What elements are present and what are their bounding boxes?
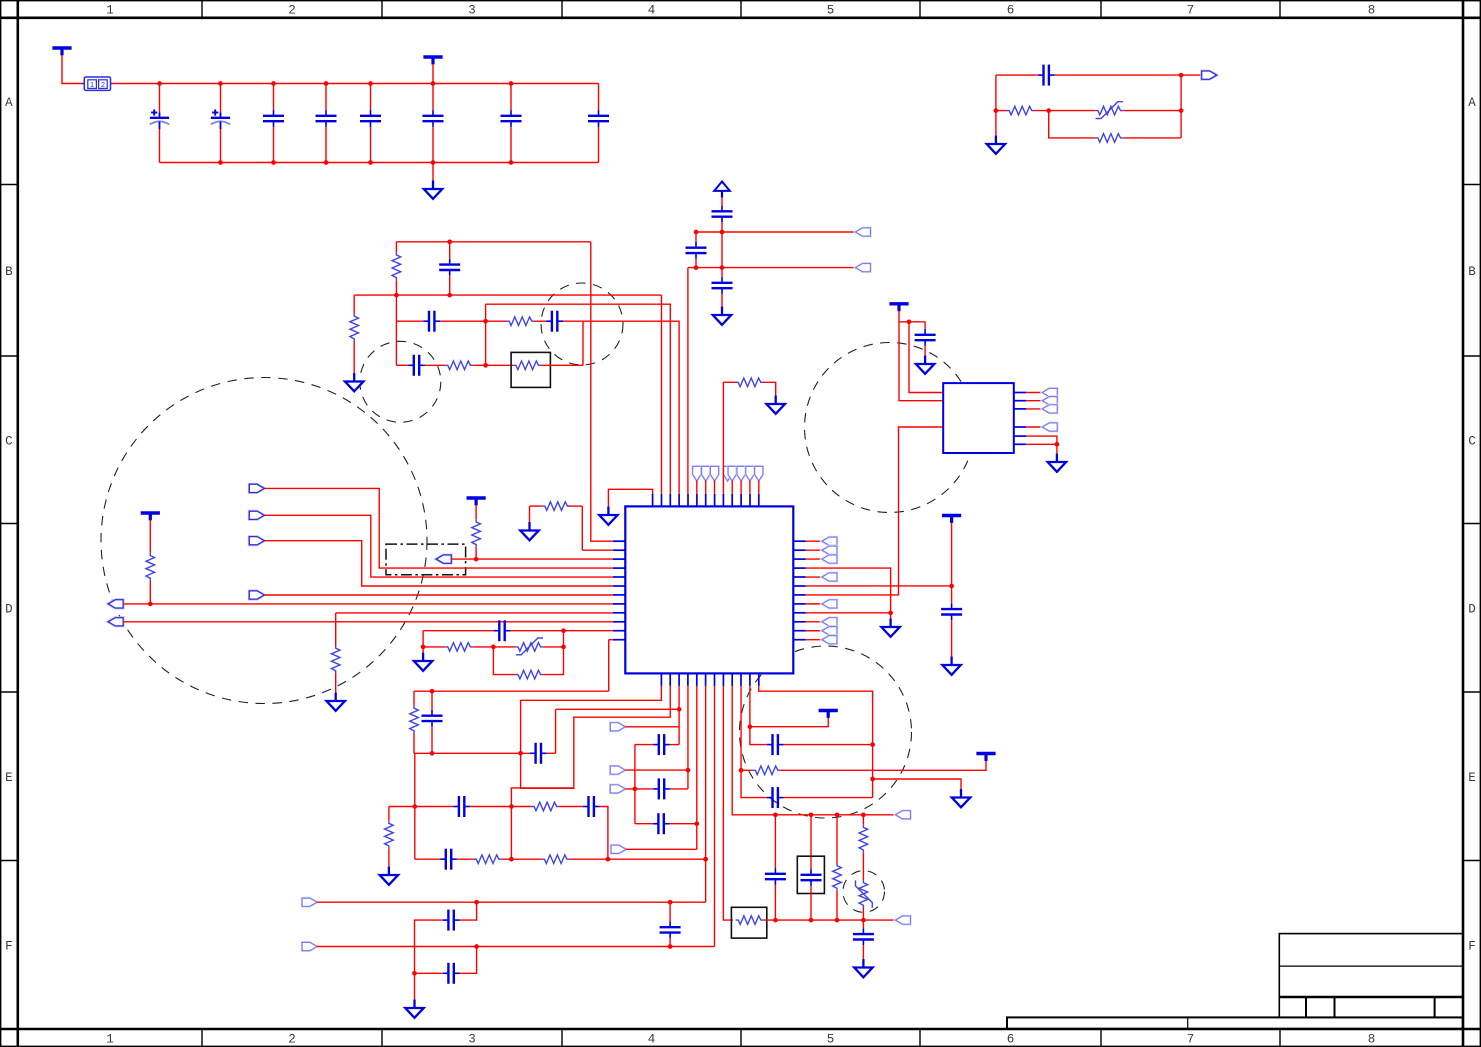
wire R5 to C12 bbox=[535, 320, 547, 322]
wire BP1 to B3 column bbox=[625, 726, 679, 728]
variable resistor RV3 bbox=[856, 880, 873, 908]
ground G10 bbox=[942, 657, 960, 675]
wire R14 loop bbox=[543, 647, 563, 675]
junction bbox=[633, 787, 638, 792]
component box around R20 bbox=[731, 907, 766, 938]
junction bbox=[509, 857, 514, 862]
capacitor C9 bbox=[1038, 65, 1055, 86]
junction bbox=[835, 812, 840, 817]
ground GB bbox=[424, 181, 442, 199]
port PB bbox=[249, 511, 264, 519]
junction bbox=[809, 812, 814, 817]
capacitor C11 bbox=[423, 311, 440, 332]
capacitor C21 bbox=[422, 710, 443, 727]
junction bbox=[739, 768, 744, 773]
wire C28 to R16 bbox=[470, 806, 531, 808]
wire TP1 to U1 bbox=[696, 481, 698, 494]
connector J1 pin stubs bbox=[1014, 393, 1027, 445]
wire VCC4 to R11 bbox=[149, 520, 151, 553]
junction bbox=[748, 724, 753, 729]
wire J1 pin2 to port JP2 bbox=[1026, 400, 1042, 402]
resistor R23 bbox=[859, 825, 868, 853]
junction bbox=[703, 857, 708, 862]
wire C22 right lead bbox=[670, 744, 679, 746]
junction bbox=[870, 777, 875, 782]
junction bbox=[412, 804, 417, 809]
power symbol VDD up-arrow bbox=[714, 182, 730, 198]
wire to ground G12 bbox=[1056, 444, 1058, 454]
svg-text:B: B bbox=[1468, 265, 1476, 279]
wire vertical branch x486 bbox=[485, 304, 487, 365]
junction bbox=[509, 160, 514, 165]
dashed highlight circle 4 (connector) bbox=[805, 343, 975, 513]
capacitor C35 bbox=[853, 928, 874, 945]
svg-text:8: 8 bbox=[1368, 1033, 1376, 1047]
svg-text:E: E bbox=[1468, 771, 1476, 785]
wire C6 bottom lead bbox=[432, 127, 434, 163]
wire BP3 to C23 bbox=[625, 788, 653, 790]
port BP5 bbox=[302, 898, 317, 906]
wire C29 elbow down bbox=[600, 807, 608, 860]
port TP7 bbox=[746, 466, 754, 481]
junction bbox=[720, 265, 725, 270]
wire to C25 bbox=[460, 902, 477, 920]
wire C2 top lead bbox=[220, 84, 222, 113]
resistor R22 bbox=[833, 863, 842, 891]
power symbol VCC8 bbox=[976, 754, 995, 761]
junction bbox=[773, 918, 778, 923]
wire R21 to VCC8 bbox=[781, 761, 986, 771]
ground G6 bbox=[520, 522, 538, 540]
capacitor C18 bbox=[941, 603, 962, 620]
wire R16 to C29 bbox=[559, 806, 582, 808]
svg-text:2: 2 bbox=[288, 4, 296, 18]
wire TP7 to U1 bbox=[749, 481, 751, 494]
wire C23 to B4 bbox=[670, 788, 688, 790]
ground G1 bbox=[987, 136, 1005, 154]
capacitor C12 bbox=[546, 311, 563, 332]
wire net1 to U1 pin L1 bbox=[591, 242, 613, 541]
port RP5 bbox=[822, 600, 837, 608]
wire row647 left bbox=[423, 646, 445, 648]
wire elbow x423 bbox=[422, 631, 424, 647]
IC U1 pin stubs bbox=[613, 494, 806, 686]
wire P3 to U1 L3 bbox=[451, 558, 613, 560]
wire U1 R2 to port RP2 bbox=[806, 549, 823, 551]
dashed highlight circle 2 bbox=[360, 341, 441, 422]
wire vertical branch x396 bbox=[395, 295, 397, 365]
dashed highlight circle 1 (left region) bbox=[101, 378, 427, 704]
wire J1 pin1 to port JP1 bbox=[1026, 392, 1042, 394]
wire C13 to R6 bbox=[425, 364, 445, 366]
ground G9 bbox=[881, 619, 899, 637]
wire C16 to ground G3 bbox=[721, 294, 723, 308]
junction bbox=[271, 81, 276, 86]
capacitor C19 bbox=[915, 329, 936, 346]
svg-text:D: D bbox=[5, 602, 13, 616]
wire U1 B8 down to R20 bbox=[723, 686, 733, 920]
wire row709 bbox=[556, 708, 680, 710]
wire C20 right lead bbox=[547, 752, 556, 754]
component box around R7 bbox=[511, 352, 550, 387]
junction bbox=[694, 230, 699, 235]
power symbol VCC7 bbox=[819, 711, 838, 718]
port RP4 bbox=[822, 573, 837, 581]
wire L9 elbow down bbox=[335, 613, 337, 646]
dashed highlight circle 3 bbox=[541, 283, 623, 365]
wire branch to C19 bbox=[899, 321, 925, 323]
wire net2 to U1 pin T2 bbox=[661, 295, 663, 494]
dashed highlight circle 6 (trimmer) bbox=[843, 871, 885, 913]
junction bbox=[994, 108, 999, 113]
capacitor C30 bbox=[440, 849, 457, 870]
wire to C26 bbox=[460, 947, 477, 974]
svg-text:3: 3 bbox=[468, 1033, 476, 1047]
wire R9 left lead bbox=[530, 505, 543, 507]
svg-text:8: 8 bbox=[1368, 4, 1376, 18]
capacitor C4 bbox=[316, 110, 337, 127]
svg-text:3: 3 bbox=[468, 4, 476, 18]
wire C25 to x414 bbox=[415, 920, 443, 973]
wire J1 pin4 to port JP4 bbox=[1026, 426, 1042, 428]
capacitor C6 bbox=[423, 110, 444, 127]
wire R12 to ground G7 bbox=[335, 674, 337, 694]
port RP1 bbox=[822, 537, 837, 545]
wire TP5 to U1 bbox=[731, 481, 733, 494]
svg-text:F: F bbox=[5, 939, 13, 953]
wire C35 to ground G16 bbox=[862, 945, 864, 960]
wire VCC5 down bbox=[951, 523, 953, 604]
wire R7 to branch bbox=[541, 364, 583, 366]
wire U1 R11 to port RP7 bbox=[806, 630, 823, 632]
wire C32 to x872 bbox=[784, 744, 873, 746]
wire C31 to x872 bbox=[784, 797, 873, 799]
junction bbox=[1179, 108, 1184, 113]
junction bbox=[861, 918, 866, 923]
power symbol VCC5 bbox=[942, 516, 961, 523]
resistor R19 bbox=[542, 855, 570, 864]
wire C2 bottom lead bbox=[220, 129, 222, 163]
junction bbox=[561, 645, 566, 650]
wire to C9 bbox=[996, 74, 1038, 76]
wire C24 right lead bbox=[670, 823, 697, 825]
wire C33 top lead bbox=[774, 815, 776, 868]
ground G2 bbox=[345, 373, 363, 391]
wire C19 top lead bbox=[924, 322, 926, 329]
port P3 bbox=[436, 555, 451, 563]
wire C21 bottom lead bbox=[431, 727, 433, 754]
junction bbox=[949, 584, 954, 589]
junction bbox=[430, 751, 435, 756]
port PC bbox=[249, 537, 264, 545]
wire row806 left bbox=[389, 806, 453, 808]
wire U1 R7 to connector J1 pin3 bbox=[806, 427, 943, 595]
junction bbox=[430, 689, 435, 694]
wire U1 R12 to port RP8 bbox=[806, 639, 823, 641]
junction bbox=[518, 751, 523, 756]
wire C4 top lead bbox=[325, 84, 327, 111]
variable resistor RV1 bbox=[1095, 102, 1123, 119]
port OUT1 bbox=[1202, 71, 1217, 79]
junction bbox=[431, 81, 436, 86]
resistor R11 bbox=[146, 553, 155, 581]
port BP3 bbox=[610, 785, 625, 793]
wire U1 R4 elbow bbox=[806, 568, 891, 613]
wire C5 bottom lead bbox=[370, 127, 372, 163]
junction bbox=[394, 293, 399, 298]
resistor R2 bbox=[1095, 134, 1123, 143]
wire C17 to U1 L11 bbox=[510, 630, 613, 632]
wire RV1 to right branch bbox=[1123, 110, 1181, 112]
wire J1 pin5 bbox=[1026, 436, 1057, 444]
wire right branch vertical bbox=[1180, 75, 1182, 138]
wire to R14 bbox=[493, 647, 515, 675]
wire R8 to ground G5 bbox=[764, 382, 776, 396]
junction bbox=[694, 821, 699, 826]
wire U1 R9 bbox=[806, 612, 891, 614]
wire TP2 to U1 bbox=[705, 481, 707, 494]
capacitor C14 bbox=[712, 206, 733, 223]
wire VCC2 stem bbox=[432, 64, 434, 84]
port PE bbox=[108, 600, 123, 608]
wire C34 bottom lead bbox=[810, 886, 812, 920]
port BP6 bbox=[302, 942, 317, 950]
wire C33 bottom lead bbox=[774, 885, 776, 920]
junction bbox=[324, 81, 329, 86]
junction bbox=[421, 645, 426, 650]
wire row920 bbox=[764, 919, 896, 921]
wire PA to U1 L4 bbox=[264, 488, 613, 568]
wire VDD to C14 bbox=[721, 198, 723, 206]
wire RV2 right bbox=[543, 646, 563, 648]
wire to R2 bbox=[1049, 111, 1096, 138]
port P2 bbox=[856, 264, 871, 272]
wire B10 to R21 bbox=[741, 769, 753, 771]
wire net w2 bbox=[688, 267, 856, 269]
wire U1 T9 to R8 bbox=[723, 382, 737, 494]
wire U1 R6 long bbox=[806, 585, 952, 587]
svg-text:E: E bbox=[5, 771, 13, 785]
capacitor C24 bbox=[653, 813, 670, 834]
resistor R7 bbox=[513, 361, 541, 370]
junction bbox=[703, 857, 708, 862]
wire net w2 to U1 pin T5 bbox=[687, 268, 689, 494]
wire row753 bbox=[414, 752, 530, 754]
junction bbox=[483, 319, 488, 324]
wire C16 top lead bbox=[721, 268, 723, 278]
wire C21 top lead bbox=[431, 691, 433, 710]
junction bbox=[1046, 108, 1051, 113]
IC U1 bbox=[625, 506, 793, 673]
wire R3 bottom lead bbox=[395, 280, 397, 295]
dashed highlight circle 5 (below IC) bbox=[740, 646, 912, 818]
wire row5 left bbox=[396, 364, 408, 366]
wire R3 top lead bbox=[395, 242, 397, 253]
resistor R5 bbox=[507, 317, 535, 326]
dash-dot group box bbox=[386, 544, 466, 575]
connector J1 bbox=[943, 383, 1014, 453]
wire branch x563 bbox=[563, 631, 565, 647]
wire VCC3 to R10 bbox=[475, 505, 477, 519]
wire R19 to B6 column bbox=[570, 858, 706, 860]
junction bbox=[474, 944, 479, 949]
junction bbox=[368, 81, 373, 86]
wire U1 R5 to port RP4 bbox=[806, 576, 823, 578]
junction bbox=[606, 857, 611, 862]
svg-text:5: 5 bbox=[827, 4, 835, 18]
resistor R15 bbox=[410, 706, 419, 734]
junction bbox=[483, 363, 488, 368]
port P1 bbox=[856, 228, 871, 236]
variable resistor RV2 bbox=[515, 638, 543, 655]
ground G3 bbox=[713, 307, 731, 325]
wire to ground GB bbox=[432, 163, 434, 182]
port BP4 bbox=[611, 845, 626, 853]
wire branch up x511 bbox=[511, 788, 574, 807]
capacitor C25 bbox=[443, 910, 460, 931]
port BP8 bbox=[896, 811, 911, 819]
port RP2 bbox=[822, 546, 837, 554]
wire U1 B5 down bbox=[696, 686, 698, 849]
wire C7 top lead bbox=[510, 84, 512, 111]
wire C30 to R18 bbox=[457, 858, 474, 860]
capacitor C31 bbox=[767, 787, 784, 808]
svg-text:B: B bbox=[5, 265, 13, 279]
wire C3 bottom lead bbox=[273, 127, 275, 163]
junction bbox=[773, 812, 778, 817]
junction bbox=[1055, 442, 1060, 447]
port JP1 bbox=[1042, 388, 1057, 396]
resistor R4 bbox=[350, 314, 359, 342]
wire C27 top lead bbox=[669, 902, 671, 921]
ground G11 bbox=[916, 356, 934, 374]
wire C1 bottom lead bbox=[159, 129, 161, 163]
junction bbox=[668, 900, 673, 905]
ground G12 bbox=[1048, 454, 1066, 472]
ground G14 bbox=[380, 867, 398, 885]
wire R6 to R7 bbox=[473, 364, 513, 366]
capacitor C13 bbox=[408, 355, 425, 376]
port RP7 bbox=[822, 627, 837, 635]
wire C27 bottom lead bbox=[669, 938, 671, 946]
junction bbox=[447, 293, 452, 298]
wire PD to U1 L7 bbox=[264, 594, 613, 596]
port RP8 bbox=[822, 636, 837, 644]
junction bbox=[491, 645, 496, 650]
junction bbox=[218, 160, 223, 165]
capacitor C17 bbox=[494, 620, 511, 641]
wire elbow x555 bbox=[555, 709, 557, 753]
wire U1 R10 to port RP6 bbox=[806, 621, 823, 623]
wire x872 to ground G15 bbox=[873, 779, 961, 790]
wire C10 top lead bbox=[449, 242, 451, 259]
wire C6 top lead bbox=[432, 84, 434, 111]
junction bbox=[677, 707, 682, 712]
port PA bbox=[249, 484, 264, 492]
power symbol VCC4 bbox=[141, 513, 160, 520]
svg-text:6: 6 bbox=[1007, 4, 1015, 18]
wire x635 down bbox=[634, 745, 636, 824]
port TP5 bbox=[728, 466, 736, 481]
wire C15 bottom lead bbox=[695, 259, 697, 268]
wire L2 elbow bbox=[581, 506, 583, 550]
capacitor C26 bbox=[443, 963, 460, 984]
wire J1 pin3 to port JP3 bbox=[1026, 408, 1042, 410]
wire R23 top lead bbox=[862, 815, 864, 825]
junction bbox=[835, 918, 840, 923]
wire BP5 long net bbox=[317, 901, 706, 903]
resistor R6 bbox=[445, 361, 473, 370]
resistor R21 bbox=[753, 766, 781, 775]
port TP6 bbox=[737, 466, 745, 481]
wire net w1 bbox=[696, 231, 856, 233]
wire R22 bottom lead bbox=[836, 891, 838, 920]
svg-text:C: C bbox=[5, 434, 13, 448]
wire to ground G6 bbox=[529, 506, 531, 523]
wire C24 left lead bbox=[635, 823, 653, 825]
junction bbox=[907, 319, 912, 324]
wire C3 top lead bbox=[273, 84, 275, 111]
wire C1 top lead bbox=[159, 84, 161, 113]
wire L11 left segment bbox=[423, 630, 494, 632]
port PF bbox=[108, 618, 123, 626]
power symbol VCC6 bbox=[889, 304, 908, 311]
port TP8 bbox=[755, 466, 763, 481]
wire left branch down bbox=[995, 75, 997, 136]
junction bbox=[561, 628, 566, 633]
svg-text:2: 2 bbox=[288, 1033, 296, 1047]
capacitor C16 bbox=[712, 277, 733, 294]
port BP1 bbox=[610, 723, 625, 731]
wire J1 pin6 bbox=[1026, 443, 1057, 445]
junction bbox=[368, 160, 373, 165]
capacitor C5 bbox=[360, 110, 381, 127]
capacitor C29 bbox=[583, 796, 600, 817]
wire U1 T1 to ground G4 bbox=[608, 489, 652, 507]
junction bbox=[861, 812, 866, 817]
junction bbox=[668, 944, 673, 949]
wire R4 top lead bbox=[353, 295, 355, 313]
capacitor C32 bbox=[767, 734, 784, 755]
wire U1 B9 down row814 bbox=[732, 686, 896, 815]
wire R10 to L3 net bbox=[475, 547, 477, 559]
capacitor C28 bbox=[453, 796, 470, 817]
title block bbox=[1007, 934, 1463, 1029]
wire U1 B1-B2 staircase bbox=[521, 686, 671, 788]
wire x414 long branch bbox=[414, 753, 416, 859]
wire to ground G8 bbox=[422, 647, 424, 654]
ground G15 bbox=[952, 789, 970, 807]
wire R9 right lead bbox=[568, 505, 583, 507]
junction bbox=[809, 918, 814, 923]
junction bbox=[474, 557, 479, 562]
power symbol VCC2 bbox=[423, 57, 442, 64]
svg-text:4: 4 bbox=[648, 1033, 656, 1047]
wire C34 top lead bbox=[810, 815, 812, 869]
resistor R18 bbox=[474, 855, 502, 864]
resistor R16 bbox=[531, 802, 559, 811]
wire U1 B12 loop bbox=[759, 686, 873, 798]
wire RV3 bottom lead bbox=[862, 908, 864, 920]
resistor R3 bbox=[392, 252, 401, 280]
junction bbox=[888, 611, 893, 616]
wire U1 R1 to port RP1 bbox=[806, 540, 823, 542]
junction bbox=[474, 900, 479, 905]
junction bbox=[509, 81, 514, 86]
wire C22 left lead bbox=[635, 744, 653, 746]
wire C35 top lead bbox=[862, 920, 864, 928]
wire C15 top lead bbox=[695, 232, 697, 242]
